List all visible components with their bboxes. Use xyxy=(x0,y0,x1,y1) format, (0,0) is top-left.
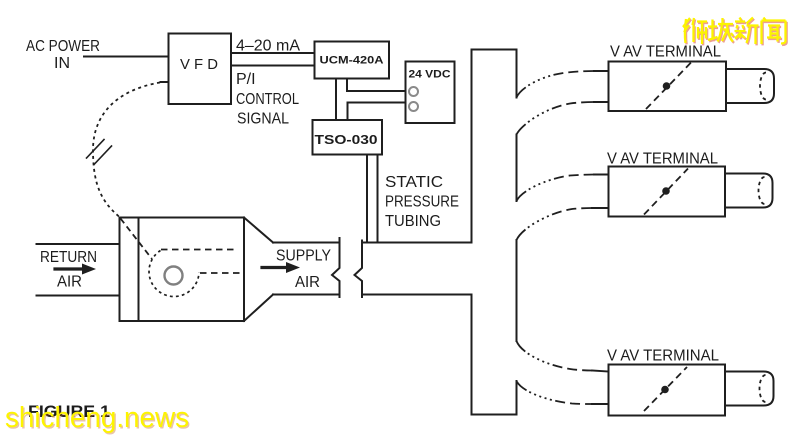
duct break symbol right xyxy=(355,241,363,298)
dashed duct line upper xyxy=(161,249,238,251)
label RETURN AIR xyxy=(40,249,97,291)
svg-text:TUBING: TUBING xyxy=(385,213,441,230)
VAV terminal 3 box xyxy=(609,365,726,416)
VAV terminal 2 damper pivot dot xyxy=(662,187,670,195)
label SUPPLY AIR xyxy=(276,248,331,292)
VFD U1 box xyxy=(169,34,232,105)
fan cone top xyxy=(244,218,273,243)
terminal circle 1 xyxy=(409,87,418,96)
wire dashed control arc VFD to fan xyxy=(93,83,160,218)
terminal circle 2 xyxy=(409,102,418,111)
VAV terminal 3 outlet dashed ring xyxy=(760,375,766,402)
supply duct bottom segment 1 xyxy=(273,294,339,296)
duct break symbol left xyxy=(332,238,340,297)
wire AC power to VFD xyxy=(84,56,168,58)
VAV terminal 1 damper pivot dot xyxy=(663,82,671,90)
break slashes on arc xyxy=(87,140,105,159)
flex duct 2 lower curve xyxy=(517,208,593,240)
main duct right edge seg1 xyxy=(516,50,518,98)
TSO-030 box xyxy=(313,120,383,155)
svg-text:SIGNAL: SIGNAL xyxy=(237,110,289,127)
wire VFD control tick xyxy=(161,81,169,83)
dashed signal entering fan xyxy=(121,219,153,260)
supply duct top segment 1 xyxy=(273,242,339,244)
char cheng xyxy=(708,18,733,42)
svg-text:IN: IN xyxy=(54,55,70,72)
supply duct top segment 2 xyxy=(362,242,472,244)
char xin xyxy=(735,18,759,45)
label P/I CONTROL SIGNAL xyxy=(236,71,299,127)
VAV terminal 1 outlet xyxy=(726,69,774,103)
svg-text:V AV TERMINAL: V AV TERMINAL xyxy=(607,151,718,168)
flex duct 2 upper curve xyxy=(517,175,595,202)
main duct bottom xyxy=(472,414,517,416)
fan box inner partition line xyxy=(138,218,140,322)
flex duct 3 lower stub xyxy=(592,403,608,405)
main duct right edge seg2 xyxy=(516,135,518,202)
svg-text:P/I: P/I xyxy=(236,71,256,88)
VAV terminal 1 outlet dashed ring xyxy=(760,73,766,100)
VAV terminal 1 box xyxy=(609,62,727,112)
VAV terminal 3 damper pivot dot xyxy=(661,386,669,394)
svg-text:4–20 mA: 4–20 mA xyxy=(236,37,300,54)
fan cone bottom xyxy=(244,295,273,322)
label STATIC PRESSURE TUBING xyxy=(385,174,459,230)
svg-text:STATIC: STATIC xyxy=(385,174,443,191)
flex duct 2 lower stub xyxy=(592,207,608,209)
svg-text:TSO-030: TSO-030 xyxy=(315,132,378,147)
VAV terminal 2 outlet dashed ring xyxy=(759,177,765,204)
flex duct 3 upper stub xyxy=(592,371,608,372)
main duct left edge lower xyxy=(471,295,473,415)
svg-text:V F D: V F D xyxy=(180,56,218,73)
dashed duct line lower xyxy=(200,272,243,274)
label AC POWER IN xyxy=(26,38,100,72)
wire UCM to 24VDC upper xyxy=(347,79,406,92)
svg-text:CONTROL: CONTROL xyxy=(236,91,299,108)
fan scroll dashed arc xyxy=(149,251,199,297)
svg-text:24 VDC: 24 VDC xyxy=(409,69,451,81)
static pressure tubing lines xyxy=(366,155,368,243)
supply duct bottom segment 2 xyxy=(362,294,472,296)
svg-text:AC POWER: AC POWER xyxy=(26,38,100,55)
svg-text:AIR: AIR xyxy=(57,274,82,291)
svg-text:V AV TERMINAL: V AV TERMINAL xyxy=(607,348,719,365)
VAV terminal 2 box xyxy=(609,167,726,217)
flex duct 3 upper curve xyxy=(517,341,593,371)
flex duct 3 lower curve xyxy=(517,381,593,404)
wire 24VDC to TSO lower xyxy=(348,103,406,121)
char wen xyxy=(762,18,786,45)
svg-text:SUPPLY: SUPPLY xyxy=(276,248,331,265)
flex duct 2 upper stub xyxy=(594,174,608,176)
flex duct 1 upper curve xyxy=(517,71,595,98)
VAV terminal 3 outlet xyxy=(725,372,774,406)
flex duct 1 lower stub xyxy=(594,101,608,103)
char shi xyxy=(683,18,707,44)
svg-text:PRESSURE: PRESSURE xyxy=(385,194,459,211)
VAV terminal 2 damper dashed diagonal xyxy=(644,169,688,215)
wire UCM to TSO xyxy=(335,79,337,121)
UCM-420A box xyxy=(315,42,390,79)
return air arrow xyxy=(55,267,84,270)
main duct left edge upper xyxy=(471,50,473,243)
watermark chinese logo xyxy=(684,19,787,46)
VAV terminal 1 damper dashed diagonal xyxy=(646,62,692,110)
svg-text:AIR: AIR xyxy=(295,274,320,291)
air handler fan box xyxy=(120,218,245,322)
return duct top xyxy=(37,243,120,245)
wire VFD to UCM (4-20 mA pair) xyxy=(231,52,314,54)
24 VDC power supply box xyxy=(406,62,455,124)
svg-text:RETURN: RETURN xyxy=(40,249,97,266)
main duct top xyxy=(472,49,517,51)
main duct right edge seg3 xyxy=(516,240,518,341)
svg-text:UCM-420A: UCM-420A xyxy=(320,55,384,67)
return duct bottom xyxy=(37,295,120,297)
svg-text:V AV TERMINAL: V AV TERMINAL xyxy=(610,44,721,61)
flex duct 1 lower curve xyxy=(517,102,595,135)
flex duct 1 upper stub xyxy=(594,70,608,72)
VAV terminal 3 damper dashed diagonal xyxy=(644,367,687,411)
fan hub circle xyxy=(165,267,183,285)
main duct right edge seg4 xyxy=(516,381,518,415)
supply air arrow xyxy=(262,266,288,269)
svg-text:shicheng.news: shicheng.news xyxy=(5,402,189,434)
VAV terminal 2 outlet xyxy=(725,174,773,208)
